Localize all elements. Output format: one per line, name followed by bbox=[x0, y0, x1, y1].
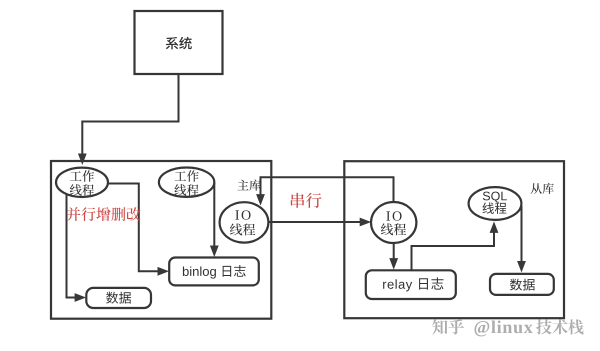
label IO线程 (master) bbox=[230, 210, 255, 235]
watermark 知乎 @linux技术栈 bbox=[432, 319, 583, 336]
arrowhead into 数据(master) left bbox=[75, 293, 87, 302]
arrowhead into relay日志 top bbox=[389, 258, 398, 270]
label 主库 bbox=[237, 180, 260, 191]
label IO线程 (slave) bbox=[381, 211, 406, 235]
box binlog 日志 bbox=[169, 258, 259, 286]
box 主库 (master) container bbox=[51, 161, 271, 319]
arrowhead into SQL线程 bottom bbox=[490, 221, 499, 233]
wire SQL线程 → 数据(slave) bbox=[521, 206, 523, 262]
box relay 日志 bbox=[366, 270, 456, 299]
label 从库 bbox=[531, 183, 554, 194]
label 数据 (slave) bbox=[510, 279, 535, 291]
label 系统 bbox=[166, 37, 192, 50]
arrowhead into 数据(slave) top bbox=[517, 261, 526, 273]
wire IO线程(master) → IO线程(slave) 串行 bbox=[268, 221, 360, 223]
box U1 系统 (system) bbox=[135, 11, 223, 74]
arrowhead into binlog日志 top bbox=[210, 246, 219, 258]
label binlog 日志 bbox=[183, 265, 246, 279]
wire 工作线程1 → binlog日志 bbox=[108, 184, 158, 272]
ellipse 工作线程 #2 bbox=[159, 168, 214, 197]
arrowhead into IO线程(master) top bbox=[256, 194, 265, 206]
box 数据 (master) bbox=[86, 288, 151, 308]
wire 系统 → 工作线程1 bbox=[82, 74, 178, 155]
circle IO线程 (slave) bbox=[371, 202, 416, 243]
label SQL线程 bbox=[482, 192, 506, 214]
label 工作线程 #2 bbox=[174, 170, 198, 195]
wire 工作线程1 → 数据(master) bbox=[67, 194, 76, 298]
label 数据 (master) bbox=[106, 292, 131, 304]
label relay 日志 bbox=[383, 277, 443, 291]
arrowhead into IO线程(slave) left bbox=[360, 218, 372, 227]
ellipse 工作线程 #1 bbox=[56, 168, 108, 197]
wire IO线程(slave) → relay日志 bbox=[393, 243, 395, 259]
ellipse SQL线程 bbox=[469, 187, 522, 220]
arrowhead into binlog日志 left bbox=[158, 267, 170, 276]
wire relay日志 → SQL线程 bbox=[412, 232, 495, 270]
label 工作线程 #1 bbox=[70, 170, 94, 195]
box 数据 (slave) bbox=[490, 274, 554, 295]
circle IO线程 (master) bbox=[220, 202, 269, 242]
wire 工作线程2 → binlog日志 top bbox=[213, 183, 215, 246]
wire IO线程(slave) → IO线程(master) return path bbox=[261, 177, 394, 202]
box 从库 (slave) container bbox=[344, 161, 564, 318]
label 并行增删改 (red) bbox=[67, 207, 141, 221]
arrowhead into 工作线程1 bbox=[78, 154, 87, 166]
label 串行 (red) bbox=[291, 193, 322, 208]
